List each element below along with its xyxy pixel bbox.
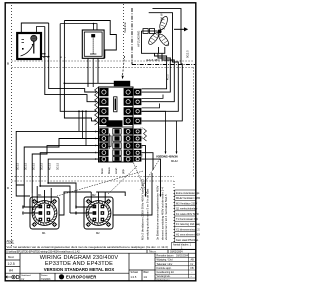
svg-text:3x Elektrische verwarmingselem: 3x Elektrische verwarmingselementen 400V [155, 185, 159, 240]
svg-text:M1&2 Ventilator 466W: M1&2 Ventilator 466W [176, 197, 200, 200]
zone divider dotted vertical left [11, 5, 13, 246]
wire end arrows [145, 195, 147, 198]
svg-text:1/1: 1/1 [144, 275, 148, 279]
svg-text:3G1.5: 3G1.5 [16, 162, 20, 170]
svg-text:VERSION STANDARD METAL BOX: VERSION STANDARD METAL BOX [44, 267, 115, 272]
wire main feed drop [64, 83, 96, 121]
svg-text:Extra onderdelen lijst: Extra onderdelen lijst [176, 192, 200, 195]
svg-text:WIRING DIAGRAM 230/400V: WIRING DIAGRAM 230/400V [40, 255, 119, 261]
svg-text:EUROPOWER: EUROPOWER [66, 275, 97, 280]
svg-text:PE: PE [142, 153, 144, 157]
svg-text:7/2/2003: 7/2/2003 [41, 278, 51, 281]
svg-text:Blad: Blad [144, 271, 149, 274]
svg-text:C R: C R [111, 122, 118, 126]
projection symbol [6, 275, 20, 279]
heater element H1 wire inner [60, 24, 97, 30]
wires H1 bottom to terminal block [87, 58, 89, 87]
svg-text:K1 relais 230V 50Hz: K1 relais 230V 50Hz [176, 213, 200, 216]
svg-text:Stab limit: Stab limit [123, 22, 127, 33]
terminal block TB1 outline [99, 87, 134, 162]
page border frame [5, 3, 196, 281]
svg-text:Tek.nr.: Tek.nr. [149, 250, 157, 253]
svg-text:Remarks datum: Remarks datum [157, 254, 174, 257]
svg-text:4G1.5: 4G1.5 [48, 162, 52, 170]
TB1 top rows terminals [99, 88, 141, 125]
TB1 bottom rows terminals [99, 128, 141, 161]
svg-text:blauw: blauw [107, 167, 111, 174]
fan F1 connector block 2 [149, 29, 154, 34]
terminal block TB1 divider [99, 126, 134, 128]
wire T1 drops to terminal block [45, 27, 97, 102]
zone dotted vertical right x=193.5 [193, 68, 195, 177]
svg-text:Q1 werkschakelaar: Q1 werkschakelaar [176, 208, 198, 211]
svg-text:1:2.5: 1:2.5 [131, 275, 137, 279]
leader dashed to label box [122, 56, 124, 78]
svg-text:Kontrole appr.: Kontrole appr. [157, 267, 172, 270]
svg-text:1:2.5: 1:2.5 [8, 262, 15, 266]
zone divider dotted vertical x=123.5 [123, 4, 125, 61]
right table texts [131, 254, 195, 281]
wires TB1 bottom-left fanout [16, 131, 99, 185]
TB1 relay black box [107, 120, 123, 126]
svg-text:M2: M2 [92, 193, 96, 197]
svg-text:M1: M1 [42, 231, 46, 235]
svg-text:M2: M2 [96, 231, 100, 235]
title block [5, 250, 196, 281]
motor M1 terminal stubs [24, 207, 39, 213]
svg-text:4x1.5: 4x1.5 [168, 74, 170, 80]
enclosure chain line horizontal y=64.5 [132, 64, 195, 66]
svg-text:FB: FB [191, 267, 194, 270]
motor M2 terminal stubs [77, 207, 93, 213]
note area [7, 240, 168, 250]
fan F1 output drops staircase to TB1 [158, 47, 160, 53]
TB1 jumper bar top [114, 97, 117, 112]
fan F1 enclosure loop outer [153, 9, 182, 28]
svg-text:Wijziging / Chd: Wijziging / Chd [157, 259, 174, 262]
svg-text:(4Ax6 480): (4Ax6 480) [146, 58, 160, 62]
heater element H1 internal probe [90, 35, 96, 55]
legend table right [172, 190, 196, 249]
svg-text:LV: LV [22, 278, 25, 281]
wires TB1 lower fanout to legend [142, 146, 146, 196]
svg-text:LV: LV [191, 263, 194, 266]
motor M1 [30, 197, 59, 229]
svg-text:Goedkeuring dd.: Goedkeuring dd. [157, 271, 175, 274]
feeder wires into TB1 lower-left [78, 111, 80, 131]
svg-text:bruin: bruin [100, 168, 104, 174]
svg-text:Note:: Note: [7, 240, 15, 244]
svg-text:Vervangt tek.: Vervangt tek. [157, 275, 171, 278]
svg-text:grijs: grijs [121, 169, 125, 174]
heater element H1 wire stub second [93, 24, 95, 30]
svg-text:Kast staal IP54 RAL: Kast staal IP54 RAL [176, 239, 199, 242]
boundary dotted horizontal pair y=176.5/181 [12, 176, 174, 178]
wire T1 right stubs [41, 54, 49, 57]
svg-text:A4: A4 [9, 268, 13, 272]
svg-text:M1&2: M1&2 [171, 159, 178, 163]
fan F1 enclosure loop inner [149, 13, 173, 44]
motor M2 [84, 197, 113, 229]
TB1 right row tags [142, 126, 144, 157]
svg-text:Getekend: Getekend [21, 274, 31, 277]
wires between motors zone [48, 183, 76, 207]
svg-text:Schaal: Schaal [131, 271, 139, 274]
zone dotted vertical x=174 bottom right [173, 181, 175, 243]
wire heater inner loop left drop [60, 24, 96, 112]
wires TB1 right side lower fanout : mains feed pair [142, 111, 166, 152]
zigzag right of TB1 lower [144, 129, 147, 142]
TB1 fuse symbol mid [108, 136, 111, 146]
svg-text:Datum: Datum [41, 274, 48, 277]
svg-text:--: -- [191, 275, 193, 278]
svg-text:VOEDING 400V3N: VOEDING 400V3N [156, 155, 178, 159]
svg-text:Voor het aansluiten van de ver: Voor het aansluiten van de verwarmingsel… [7, 245, 168, 249]
svg-text:5G1.5: 5G1.5 [32, 162, 36, 170]
svg-text:via klemmen 1 tot 4 met kabel: via klemmen 1 tot 4 met kabel 5G2.5 [164, 194, 168, 240]
svg-text:Mod.: Mod. [8, 255, 14, 259]
svg-text:5G2.5: 5G2.5 [117, 82, 127, 86]
wire loop top-left outer [21, 23, 48, 33]
heater element H1 wire loop outer left drop to feed [63, 21, 65, 84]
small texts group [7, 13, 190, 240]
leader dashed to motor M1 [57, 171, 143, 196]
svg-text:3G1.5: 3G1.5 [56, 162, 60, 170]
leader dashed cross legend [140, 159, 160, 191]
leader dashed to legend right [133, 161, 148, 195]
cable label box (black) above terminal block [114, 81, 130, 86]
europower logo [59, 274, 97, 279]
svg-text:zwart: zwart [114, 168, 118, 174]
svg-text:H1 verw.element 400V: H1 verw.element 400V [176, 234, 200, 237]
svg-text:G:\tek\ep\EP33TDE-EP43TDE-wiri: G:\tek\ep\EP33TDE-EP43TDE-wiring-230-400… [6, 250, 80, 253]
fan F1 feed wire [142, 30, 158, 32]
svg-text:M1+2 Ventilatoren 230V 50Hz 46: M1+2 Ventilatoren 230V 50Hz 466W kabel 3… [141, 178, 145, 240]
fan F1 blades [147, 15, 171, 47]
svg-text:Tekenaar / drw: Tekenaar / drw [157, 263, 173, 266]
wire zigzag strain relief column at TB1 left entries [95, 88, 98, 126]
thermostat T1 box [17, 33, 41, 59]
svg-text:AFZUIGING: AFZUIGING [137, 30, 141, 47]
heater element H1 box double border [82, 30, 104, 58]
svg-text:F1 zekering 10A traag: F1 zekering 10A traag [176, 223, 200, 226]
svg-text:Onderdeel v.: Onderdeel v. [157, 279, 171, 282]
wire main feed horizontal with label [64, 82, 114, 84]
svg-text:X1 klemmenstrook 2.5: X1 klemmenstrook 2.5 [176, 228, 200, 231]
fan F1 connector block 1 [143, 29, 148, 34]
fan F1 airflow arrow [174, 27, 188, 31]
svg-text:T1 thermostaat 30C: T1 thermostaat 30C [176, 218, 198, 221]
svg-text:3G2.5: 3G2.5 [40, 162, 44, 170]
svg-text:3G1.5: 3G1.5 [24, 162, 28, 170]
heater element H1 wire loop outer stepped [64, 21, 116, 59]
TB1 middle contact rects bottom [113, 129, 121, 162]
svg-text:M1: M1 [38, 193, 42, 197]
svg-text:5G2.5: 5G2.5 [186, 50, 190, 58]
thermostat T1 sensor bulb [21, 35, 37, 56]
leader dashed to motor M2 [108, 166, 137, 194]
boundary dotted horizontal pair y=61/67.5 [12, 60, 193, 62]
svg-text:aansluiting via klemmen 5 en 9: aansluiting via klemmen 5 en 9 in de kas… [146, 189, 150, 240]
svg-text:03/02/2004: 03/02/2004 [176, 254, 189, 257]
junction dots [36, 23, 106, 214]
svg-text:M3 Ventilator 230V: M3 Ventilator 230V [176, 202, 197, 205]
TB1 row numbers left [95, 91, 97, 161]
enclosure chain line vertical x=132 [131, 8, 133, 65]
svg-text:03/02/2004: 03/02/2004 [170, 250, 183, 253]
wire loop top-left inner [37, 27, 45, 34]
svg-text:466 W: 466 W [159, 13, 163, 21]
svg-text:AB: AB [191, 259, 195, 262]
svg-text:B: B [7, 62, 9, 66]
